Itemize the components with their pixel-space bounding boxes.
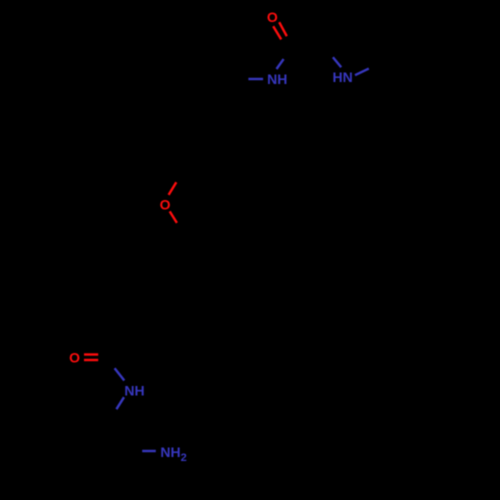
svg-text:O: O xyxy=(267,9,278,25)
svg-text:O: O xyxy=(160,196,171,212)
svg-text:O: O xyxy=(69,350,80,366)
svg-text:HN: HN xyxy=(332,69,352,85)
svg-text:NH: NH xyxy=(267,71,287,87)
svg-text:NH: NH xyxy=(124,383,144,399)
